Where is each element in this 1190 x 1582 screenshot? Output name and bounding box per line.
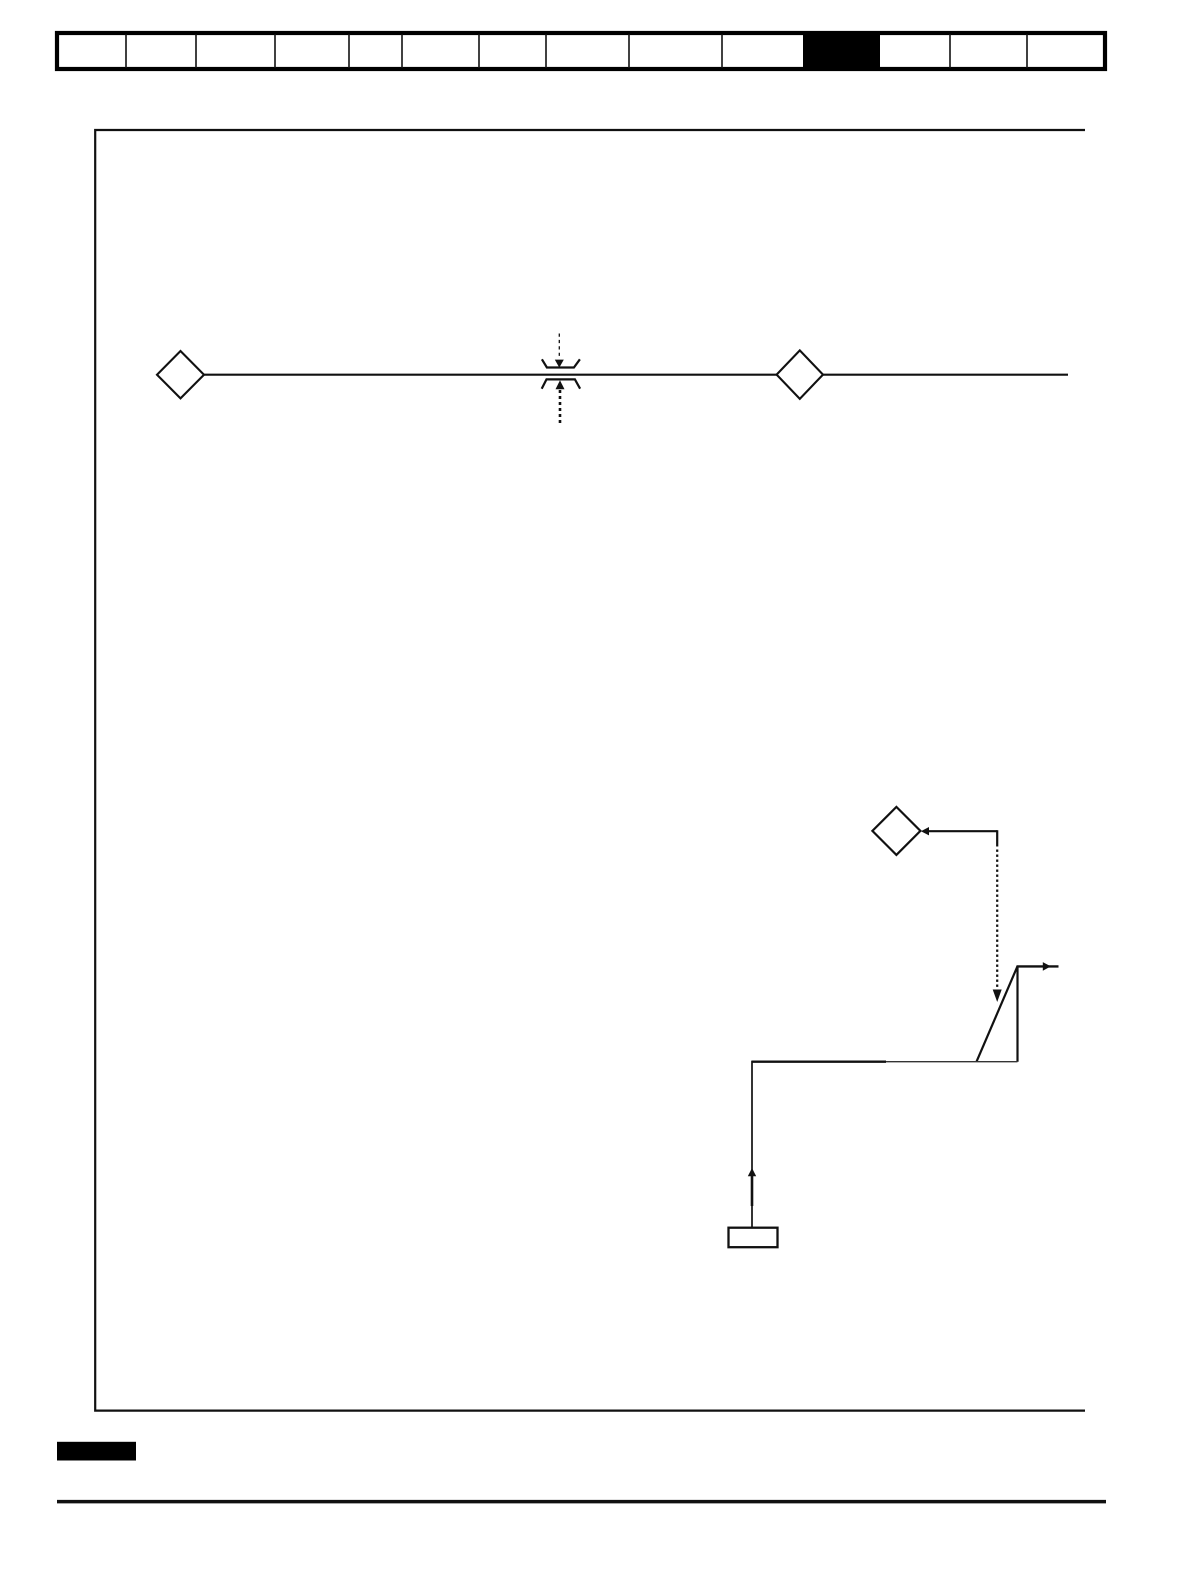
header tab bar outer frame (57, 33, 1105, 69)
header tab cell divider 6 (478, 34, 480, 68)
wire: output line at ramp top (1017, 965, 1059, 967)
wire: dotted vertical drop (996, 850, 998, 990)
node D1: left diamond (157, 351, 204, 398)
wire: main horizontal line (203, 374, 1068, 376)
header tab cell divider 10 (949, 34, 951, 68)
header tab cell divider 4 (348, 34, 350, 68)
footer black tag (57, 1442, 136, 1461)
ramp: bottom baseline (thin right part) (886, 1061, 1018, 1063)
gap symbol: lower bracket (542, 379, 580, 388)
main content frame (open on right) (95, 130, 1085, 1411)
ramp: diagonal line (977, 966, 1018, 1061)
gap symbol: upper dashed arrow line (558, 334, 560, 360)
header tab cell divider 7 (545, 34, 547, 68)
arrowhead into D3 (pointing left) (921, 827, 929, 835)
header tab cell divider 3 (274, 34, 276, 68)
gap symbol: lower arrowhead (up) (556, 380, 565, 389)
header tab cell divider 9 (721, 34, 723, 68)
header tab cell divider 2 (195, 34, 197, 68)
arrowhead on output line (pointing right) (1043, 962, 1051, 971)
header active tab (black cell) (803, 33, 880, 69)
node D2: middle diamond (777, 350, 823, 398)
wire: horizontal line from corner to D3 (928, 830, 997, 832)
gap symbol: upper arrowhead (down) (555, 360, 564, 368)
ramp: bottom baseline (thick left part) (752, 1060, 886, 1062)
gap symbol: upper bracket (542, 359, 580, 367)
node D3: lower-right diamond (872, 807, 920, 855)
gap symbol: lower dotted arrow line (559, 390, 562, 424)
wire: left vertical from baseline corner down to box (751, 1061, 753, 1227)
ramp: vertical right edge (1016, 966, 1018, 1061)
header tab cell divider 5 (401, 34, 403, 68)
header tab cell divider 8 (628, 34, 630, 68)
header tab cell divider 11 (1026, 34, 1028, 68)
header tab cell divider 1 (125, 34, 127, 68)
arrowhead at end of dotted drop (pointing down) (993, 990, 1002, 1003)
arrowhead on left vertical (pointing up) (748, 1168, 756, 1176)
wire: short solid start of vertical drop (996, 830, 998, 846)
footer rule (57, 1500, 1106, 1504)
thicker shaft segment below arrowhead (751, 1176, 754, 1206)
small rectangle block (729, 1228, 778, 1248)
